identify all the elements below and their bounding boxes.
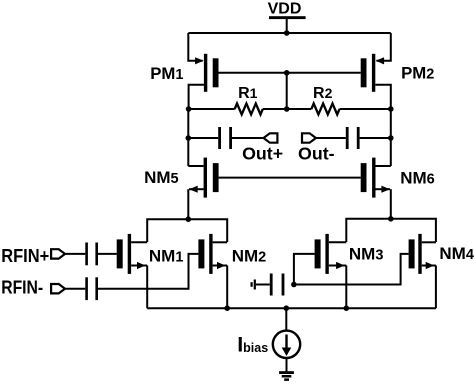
capacitor out- <box>346 127 360 149</box>
port RFIN- <box>51 284 65 293</box>
wire out+ tap to cap <box>188 137 218 139</box>
svg-text:Ibias: Ibias <box>237 332 268 356</box>
wire PM gates interconnect <box>219 72 361 74</box>
node NM3 source <box>344 305 350 311</box>
svg-text:PM1: PM1 <box>150 64 183 83</box>
node out- tap <box>388 135 394 141</box>
wire cap to Out+ port <box>232 137 264 139</box>
wire NM5-NM6 gate interconnect <box>219 177 361 179</box>
svg-text:R1: R1 <box>238 85 258 102</box>
wire right source rail <box>346 219 436 242</box>
resistor R2 <box>311 104 339 115</box>
port RFIN+ <box>51 249 65 258</box>
wire right column drop <box>390 109 392 166</box>
transistor PM2 <box>361 54 391 109</box>
svg-text:R2: R2 <box>313 85 333 102</box>
transistor NM3 <box>315 234 347 274</box>
transistor NM4 <box>409 234 436 274</box>
wire NM6 source drop <box>390 189 392 219</box>
wire RFIN- to cap <box>65 288 85 290</box>
wire left drop to PM1 source <box>188 33 202 61</box>
port Out- <box>302 133 316 142</box>
wire RFIN+ to cap <box>65 253 85 255</box>
node Ibias tap <box>284 305 290 311</box>
svg-text:NM5: NM5 <box>144 168 179 187</box>
transistor NM6 <box>361 158 391 198</box>
wire cap to NM1 gate <box>98 253 117 255</box>
svg-text:RFIN-: RFIN- <box>1 276 43 297</box>
node right tail <box>388 216 394 222</box>
wire Out- port to cap <box>316 137 346 139</box>
wire R row left segment <box>189 108 235 110</box>
node bias junction <box>291 282 297 288</box>
wire NM3 gate drop <box>294 254 315 285</box>
wire bypass cap to AC ground <box>256 284 270 286</box>
wire R row middle segment <box>263 108 312 110</box>
svg-text:RFIN+: RFIN+ <box>1 245 49 266</box>
transistor NM1 <box>117 234 148 274</box>
wire NM1 source to bottom rail <box>146 266 148 309</box>
svg-text:Out-: Out- <box>298 143 335 163</box>
svg-text:NM2: NM2 <box>232 247 267 266</box>
capacitor out+ <box>218 127 232 149</box>
wire top rail <box>188 32 390 34</box>
svg-text:NM3: NM3 <box>349 245 384 264</box>
current source Ibias <box>273 331 300 358</box>
node R1 left <box>186 106 192 112</box>
svg-text:Out+: Out+ <box>242 143 283 163</box>
wire left source rail <box>147 219 227 242</box>
transistor PM1 <box>189 54 219 109</box>
svg-text:NM4: NM4 <box>439 244 474 263</box>
svg-text:VDD: VDD <box>268 1 302 18</box>
node NM2 source <box>224 305 230 311</box>
capacitor bypass <box>270 274 285 296</box>
wire cap to NM2 gate <box>98 254 198 289</box>
node R2 right <box>388 106 394 112</box>
wire bottom rail <box>147 307 436 309</box>
wire gate to R center <box>286 73 288 109</box>
node out+ tap <box>186 135 192 141</box>
ground <box>279 371 294 381</box>
wire current source to ground <box>286 358 288 372</box>
VDD supply symbol <box>269 16 306 33</box>
wire cap to right column <box>360 137 391 139</box>
wire left column drop <box>187 109 189 166</box>
resistor R1 <box>235 104 263 115</box>
svg-text:NM6: NM6 <box>400 168 435 187</box>
node top rail / VDD junction <box>284 30 290 36</box>
capacitor RFIN- <box>85 277 98 300</box>
AC ground (sideways) <box>251 280 256 290</box>
node R center <box>284 106 290 112</box>
svg-text:PM2: PM2 <box>401 63 434 82</box>
transistor NM5 <box>188 158 218 198</box>
wire right drop to PM2 source <box>377 33 391 61</box>
port Out+ <box>264 133 278 142</box>
wire NM4 gate drop <box>294 254 409 285</box>
wire to current source <box>285 308 287 330</box>
wire NM2 source to bottom rail <box>226 266 228 309</box>
transistor NM2 <box>198 234 227 274</box>
svg-text:NM1: NM1 <box>149 247 184 266</box>
wire NM4 source to bottom rail <box>435 266 437 309</box>
node gate line junction <box>284 70 290 76</box>
capacitor RFIN+ <box>85 243 98 266</box>
wire R row right segment <box>340 108 391 110</box>
wire NM5 source drop <box>187 189 189 219</box>
node left tail <box>186 216 192 222</box>
wire NM3 source to bottom rail <box>345 266 347 309</box>
